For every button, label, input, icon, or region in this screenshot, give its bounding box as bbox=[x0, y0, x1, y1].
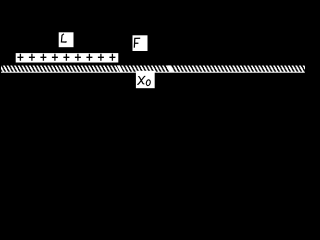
ground band white bottom margin bbox=[1, 72, 305, 73]
label x0 box bbox=[136, 71, 155, 88]
plus charges on bar bbox=[17, 54, 115, 61]
physics diagram: charged slab resting on hatched ground, labels L, F, x0 bbox=[0, 0, 309, 95]
label 0 subscript glyph bbox=[146, 79, 151, 86]
label L box bbox=[59, 32, 74, 47]
ground hatch seam gap B bbox=[167, 65, 174, 72]
charged bar bbox=[16, 53, 119, 62]
label F box bbox=[133, 35, 148, 51]
label L glyph bbox=[61, 34, 66, 42]
label x glyph bbox=[137, 76, 145, 84]
label F glyph bbox=[134, 38, 140, 47]
ground band with hatching bbox=[1, 65, 305, 72]
ground hatch seam gap A bbox=[117, 65, 124, 72]
